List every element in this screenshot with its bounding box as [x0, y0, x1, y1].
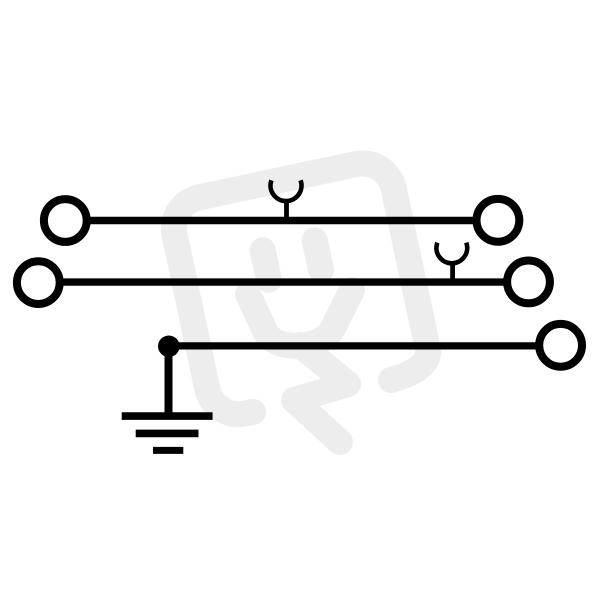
- terminal circle T5 (wire W3 right): [539, 324, 582, 367]
- terminal circle T1 (wire W1 left): [44, 199, 87, 242]
- junction node A: [158, 336, 180, 358]
- wire to ground: [165, 346, 173, 414]
- terminal circle T3 (wire W2 left): [17, 261, 60, 304]
- ground: [122, 416, 213, 450]
- watermark logo: [168, 157, 433, 442]
- wire W1: [87, 217, 475, 225]
- test tap TP1 on wire W1: [271, 180, 302, 219]
- wire W3: [169, 342, 537, 349]
- terminal circle T2 (wire W1 right): [477, 199, 520, 242]
- test tap TP2 on wire W2: [436, 243, 467, 281]
- wire W2: [60, 278, 506, 285]
- terminal circle T4 (wire W2 right): [507, 261, 550, 304]
